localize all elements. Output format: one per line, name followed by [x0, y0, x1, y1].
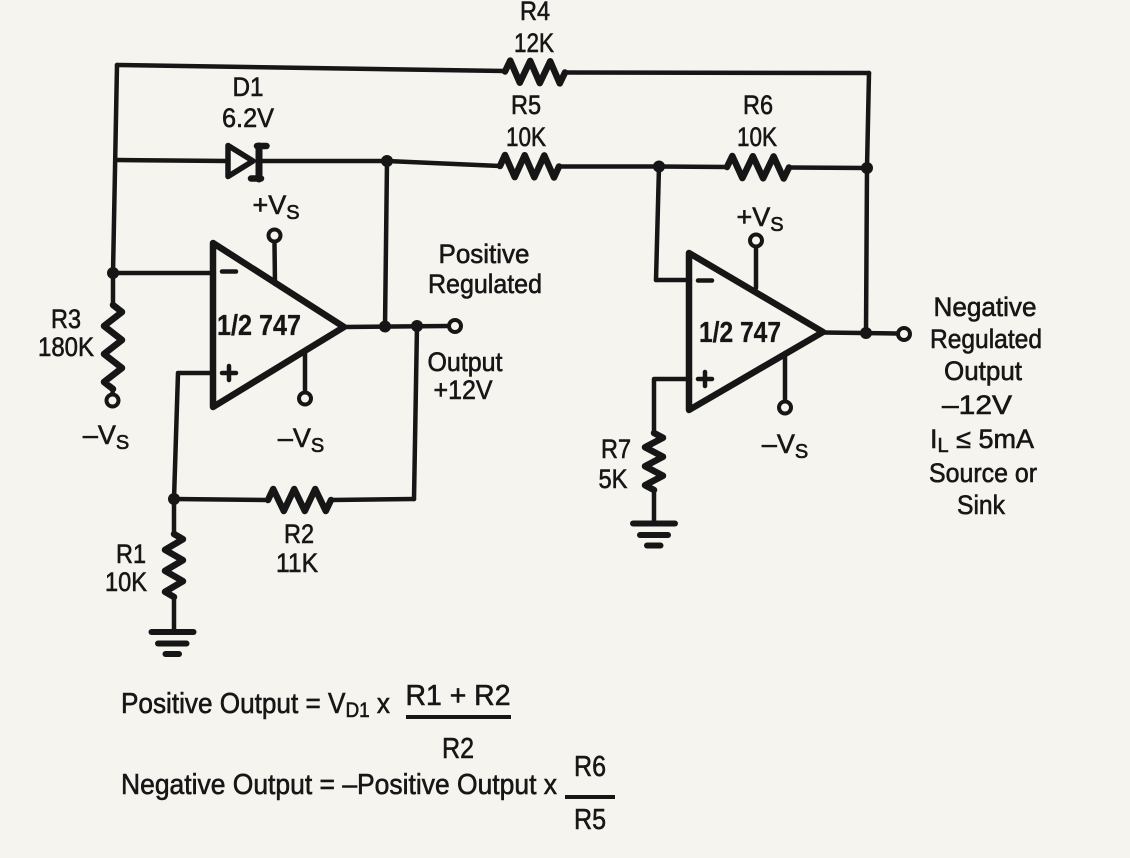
wire node to R6	[659, 164, 727, 169]
diode D1	[228, 146, 267, 180]
op2 +Vs wire	[754, 249, 759, 288]
wire right rail	[866, 73, 869, 333]
ground G1	[152, 632, 194, 654]
svg-text:R3: R3	[51, 304, 81, 334]
wire op1 plus input	[174, 373, 213, 499]
resistor R7	[645, 433, 663, 490]
svg-text:D1: D1	[233, 72, 264, 102]
op-amp U1	[213, 243, 344, 407]
wire R2 to feedback	[331, 499, 414, 500]
svg-text:R2: R2	[284, 519, 314, 549]
svg-text:Output: Output	[944, 356, 1022, 386]
wire R2 line left	[174, 499, 268, 500]
terminal -Vs op1	[299, 393, 311, 405]
wire D1 line left	[117, 160, 227, 161]
svg-text:R4: R4	[520, 0, 550, 26]
wire op1 output	[344, 326, 447, 327]
svg-text:Regulated: Regulated	[428, 269, 542, 299]
wire mid junction to R5	[387, 161, 500, 166]
svg-text:–12V: –12V	[942, 390, 1012, 420]
resistor R6	[727, 156, 789, 179]
fraction bar 1	[406, 715, 511, 719]
node plus1 / R1 / R2	[168, 493, 180, 505]
op1 +Vs wire	[272, 244, 277, 284]
terminal output op2	[898, 328, 910, 340]
node D1 line / mid vertical	[381, 155, 393, 167]
terminal -Vs op2	[779, 402, 791, 414]
resistor R1	[165, 534, 183, 597]
svg-text:R2: R2	[442, 733, 474, 765]
wire R7 to ground	[652, 490, 657, 523]
svg-text:10K: 10K	[737, 122, 777, 152]
wire R1 to ground	[172, 597, 177, 631]
op1 minus sign	[222, 269, 236, 274]
svg-text:Output: Output	[428, 347, 503, 377]
svg-text:Source or: Source or	[929, 458, 1037, 488]
ground G2	[633, 524, 675, 546]
op2 minus sign	[698, 278, 712, 283]
svg-text:R6: R6	[743, 90, 773, 120]
wire left rail	[113, 65, 117, 305]
wire op1 minus input	[113, 271, 213, 276]
wire mid vertical	[385, 161, 387, 327]
svg-text:Negative Output = –Positive Ou: Negative Output = –Positive Output x	[121, 769, 557, 801]
wire op2 minus vertical	[656, 167, 659, 281]
node R5 / minus2 vertical	[653, 161, 665, 173]
svg-text:R7: R7	[601, 434, 631, 464]
resistor R3	[104, 305, 122, 389]
op2 -Vs wire	[783, 353, 788, 399]
svg-text:+12V: +12V	[434, 375, 493, 405]
svg-text:10K: 10K	[506, 122, 546, 152]
svg-text:Regulated: Regulated	[930, 324, 1042, 354]
node rail/minus1 junction	[107, 267, 119, 279]
svg-text:11K: 11K	[276, 548, 318, 578]
node output1 / feedback	[411, 320, 423, 332]
svg-text:5K: 5K	[599, 464, 628, 494]
wire R5 to node	[559, 164, 659, 169]
resistor R5	[500, 155, 559, 178]
wire op2 minus input	[656, 278, 690, 283]
svg-text:180K: 180K	[38, 332, 94, 362]
wire R3 to terminal	[110, 389, 115, 393]
svg-text:Positive: Positive	[439, 239, 530, 269]
resistor R2	[268, 489, 331, 511]
svg-text:R1 + R2: R1 + R2	[406, 680, 511, 712]
wire R1 top	[172, 499, 177, 534]
svg-text:R5: R5	[574, 804, 606, 836]
wire top (to R4)	[117, 65, 505, 71]
terminal +Vs op2	[750, 235, 762, 247]
op2 plus sign	[698, 372, 712, 386]
resistor R4	[505, 61, 565, 84]
wire op2 output	[823, 333, 896, 334]
wire op2 plus input	[654, 379, 690, 433]
node R6 / right rail	[861, 162, 873, 174]
svg-text:R1: R1	[116, 539, 146, 569]
fraction bar 2	[565, 795, 615, 799]
svg-text:R5: R5	[511, 90, 541, 120]
svg-text:R6: R6	[574, 751, 606, 783]
wire D1 to mid junction	[261, 159, 387, 164]
node right rail / output2	[860, 327, 872, 339]
op1 -Vs wire	[303, 351, 308, 390]
svg-text:12K: 12K	[514, 28, 554, 58]
op1 plus sign	[222, 366, 236, 380]
svg-text:1/2 747: 1/2 747	[699, 317, 781, 349]
svg-text:Sink: Sink	[957, 490, 1005, 520]
wire top (R4 to right rail)	[565, 70, 869, 75]
svg-text:6.2V: 6.2V	[222, 103, 274, 133]
wire R6 to right rail	[789, 165, 867, 170]
node mid vertical / output1	[379, 321, 391, 333]
wire feedback vertical	[414, 326, 417, 499]
terminal -Vs R3	[107, 395, 119, 407]
terminal output op1	[449, 320, 461, 332]
svg-text:Negative: Negative	[934, 292, 1037, 322]
terminal +Vs op1	[269, 230, 281, 242]
svg-text:1/2 747: 1/2 747	[217, 310, 301, 342]
svg-text:10K: 10K	[105, 567, 147, 597]
op-amp U2	[689, 253, 823, 410]
